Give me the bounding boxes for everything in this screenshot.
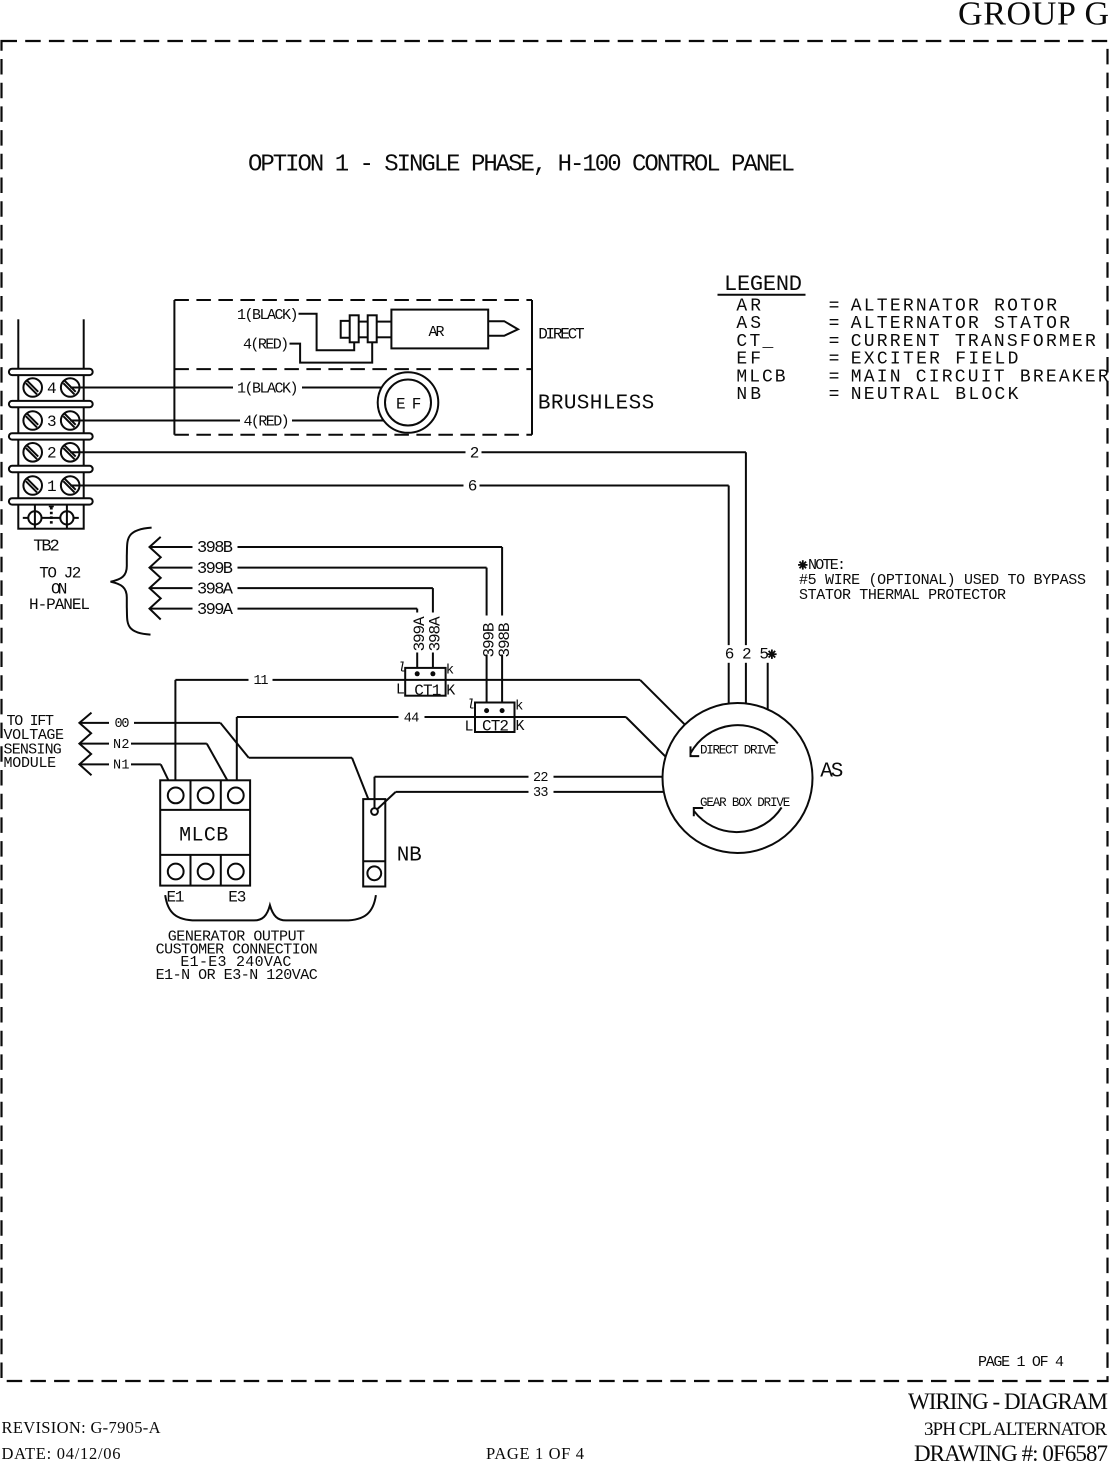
svg-text:1: 1 xyxy=(47,478,57,496)
svg-text:AR: AR xyxy=(429,324,445,341)
svg-text:22: 22 xyxy=(533,771,549,786)
alternator stator AS xyxy=(663,703,813,853)
legend title LEGEND xyxy=(724,272,802,297)
wire 5 optional to stator xyxy=(767,663,769,710)
main circuit breaker MLCB xyxy=(160,780,250,885)
svg-text:399B: 399B xyxy=(197,560,233,579)
svg-text:DIRECT: DIRECT xyxy=(538,325,584,343)
wire N1 xyxy=(79,764,172,788)
brace generator output xyxy=(165,895,376,920)
svg-text:44: 44 xyxy=(404,711,420,726)
wire 11 xyxy=(175,680,684,788)
svg-text:=: = xyxy=(829,385,840,405)
svg-text:NB: NB xyxy=(397,845,422,868)
TB2 screws row 4 xyxy=(23,378,79,398)
wire 33 xyxy=(377,792,664,810)
svg-text:1(BLACK): 1(BLACK) xyxy=(237,381,299,398)
svg-text:DRAWING #: 0F6587: DRAWING #: 0F6587 xyxy=(914,1441,1108,1463)
svg-text:PAGE 1 OF 4: PAGE 1 OF 4 xyxy=(486,1444,584,1463)
svg-text:WIRING - DIAGRAM: WIRING - DIAGRAM xyxy=(908,1389,1108,1414)
svg-text:4(RED): 4(RED) xyxy=(244,414,290,431)
svg-text:MLCB: MLCB xyxy=(179,824,228,847)
wire 2 drop to stator xyxy=(745,663,747,704)
legend entries xyxy=(736,297,1108,406)
svg-text:k: k xyxy=(515,699,523,715)
svg-text:GEAR BOX DRIVE: GEAR BOX DRIVE xyxy=(700,796,790,810)
TB2 screws row 1 xyxy=(23,476,79,496)
svg-text:BRUSHLESS: BRUSHLESS xyxy=(538,392,654,415)
wire stub right above TB2 xyxy=(83,319,85,370)
IFT harness arrows xyxy=(79,713,91,776)
svg-text:MODULE: MODULE xyxy=(4,755,57,772)
TB2 bar 4 xyxy=(9,466,93,472)
svg-text:DATE: 04/12/06: DATE: 04/12/06 xyxy=(2,1444,121,1463)
footer titles xyxy=(2,1389,1109,1463)
svg-text:STATOR THERMAL PROTECTOR: STATOR THERMAL PROTECTOR xyxy=(799,587,1006,604)
svg-text:3PH CPL ALTERNATOR: 3PH CPL ALTERNATOR xyxy=(924,1419,1107,1440)
svg-text:4: 4 xyxy=(47,380,57,398)
rotor AR body xyxy=(391,310,488,349)
svg-text:E1-N OR E3-N 120VAC: E1-N OR E3-N 120VAC xyxy=(156,967,318,984)
wire 6 drop to stator xyxy=(728,663,730,704)
svg-text:E1: E1 xyxy=(167,889,185,907)
shaft segment xyxy=(359,322,392,338)
svg-text:398A: 398A xyxy=(197,580,234,599)
neutral block NB xyxy=(363,799,385,886)
svg-text:6: 6 xyxy=(725,646,735,664)
svg-text:6: 6 xyxy=(468,478,478,496)
rotor shaft cap xyxy=(341,321,350,338)
svg-text:k: k xyxy=(446,662,454,678)
wire 44 xyxy=(237,717,666,788)
svg-text:398B: 398B xyxy=(496,623,514,658)
TB2 screws row 2 xyxy=(23,443,79,463)
label generator output customer connection xyxy=(156,929,318,984)
wire 398A xyxy=(150,588,433,671)
wire stub left above TB2 xyxy=(17,319,19,370)
svg-text:DIRECT DRIVE: DIRECT DRIVE xyxy=(700,744,776,758)
svg-text:H-PANEL: H-PANEL xyxy=(29,596,90,614)
svg-text:l: l xyxy=(467,698,475,714)
svg-text:1(BLACK): 1(BLACK) xyxy=(237,307,299,324)
svg-text:N1: N1 xyxy=(113,759,130,774)
shaft tip xyxy=(488,321,518,336)
wire TB2-3 to exciter 4(RED) xyxy=(70,420,384,422)
svg-text:2: 2 xyxy=(47,445,57,463)
svg-text:OPTION 1 - SINGLE PHASE, H-100: OPTION 1 - SINGLE PHASE, H-100 CONTROL P… xyxy=(248,152,795,179)
TB2 bar 3 xyxy=(9,433,93,439)
brace to J2 harness xyxy=(111,528,152,635)
TB2 screws row 3 xyxy=(23,411,79,431)
alternator rotor assembly dashed box xyxy=(174,300,532,435)
slip ring 2 xyxy=(368,315,377,342)
svg-text:AS: AS xyxy=(820,761,843,784)
svg-text:4(RED): 4(RED) xyxy=(243,337,289,354)
label TO J2 ON H-PANEL xyxy=(29,565,90,614)
svg-text:K: K xyxy=(446,683,455,700)
svg-text:398A: 398A xyxy=(427,616,445,651)
wire 4(RED) to brush xyxy=(290,342,373,362)
svg-text:00: 00 xyxy=(115,717,130,732)
wire 6 from TB2-1 xyxy=(70,486,729,646)
wire N2 xyxy=(79,744,232,789)
wire 399A xyxy=(150,609,418,672)
svg-text:CT1: CT1 xyxy=(414,682,441,700)
wire 1(BLACK) to brush xyxy=(299,314,355,350)
TB2 mounting holes xyxy=(23,505,79,528)
svg-text:33: 33 xyxy=(533,786,549,801)
svg-text:398B: 398B xyxy=(197,539,233,558)
svg-text:l: l xyxy=(398,661,406,677)
exciter field EF xyxy=(378,372,439,433)
current transformer CT2 xyxy=(465,698,525,736)
svg-text:REVISION: G-7905-A: REVISION: G-7905-A xyxy=(2,1418,161,1437)
svg-text:399A: 399A xyxy=(197,601,234,620)
wire 00 xyxy=(79,723,372,809)
svg-text:E3: E3 xyxy=(228,889,246,907)
asterisk star xyxy=(767,650,776,659)
label TO IFT VOLTAGE SENSING MODULE xyxy=(4,713,65,772)
wire 2 from TB2-2 xyxy=(70,452,746,645)
svg-text:L: L xyxy=(465,719,474,736)
svg-text:11: 11 xyxy=(254,674,269,689)
svg-text:N2: N2 xyxy=(113,738,130,753)
TB2 bar 5 xyxy=(9,498,93,504)
legend underline xyxy=(718,294,806,296)
note asterisk xyxy=(798,560,807,569)
svg-text:3: 3 xyxy=(47,413,57,431)
note xyxy=(799,557,1086,604)
wire 398B xyxy=(150,547,503,708)
svg-text:2: 2 xyxy=(470,444,480,462)
svg-text:L: L xyxy=(396,682,405,699)
wire 399B xyxy=(150,568,487,709)
svg-text:PAGE 1 OF 4: PAGE 1 OF 4 xyxy=(978,1354,1064,1371)
svg-text:2: 2 xyxy=(742,646,752,664)
current transformer CT1 xyxy=(396,661,455,701)
svg-text:CT2: CT2 xyxy=(482,718,509,736)
TB2 body xyxy=(18,372,83,529)
TB2 bar 2 xyxy=(9,401,93,407)
svg-text:LEGEND: LEGEND xyxy=(724,272,802,297)
J2 harness arrows xyxy=(150,537,161,620)
wire TB2-4 to exciter 1(BLACK) xyxy=(70,387,382,389)
svg-text:GROUP G: GROUP G xyxy=(958,0,1109,33)
wire 22 xyxy=(375,777,663,808)
TB2 bar 1 xyxy=(9,369,93,375)
svg-text:K: K xyxy=(516,718,525,735)
slip ring 1 xyxy=(350,315,359,342)
svg-text:TB2: TB2 xyxy=(33,538,60,557)
TB2 terminal block xyxy=(9,319,93,528)
